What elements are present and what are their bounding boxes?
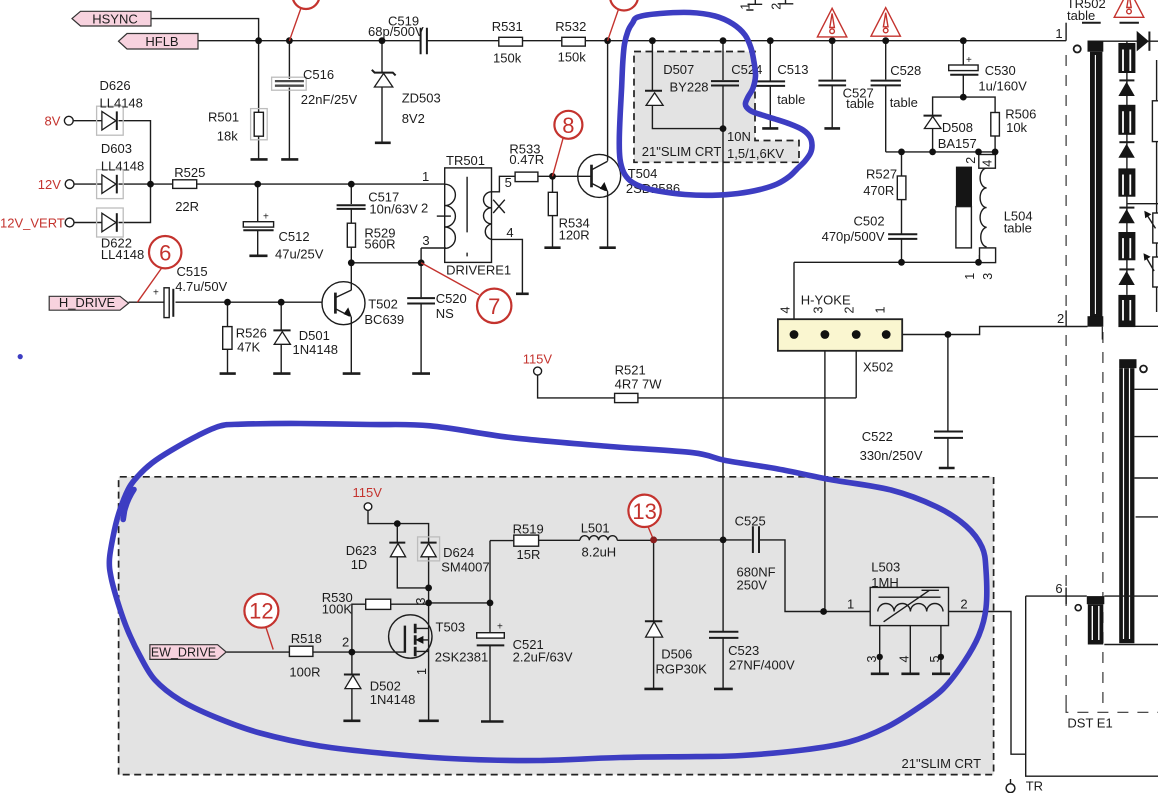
DST E1 block winding 6	[1087, 596, 1105, 604]
svg-text:1: 1	[874, 307, 888, 314]
resistor R501	[251, 109, 268, 140]
terminal 115V top	[534, 367, 542, 375]
wire R519 to L501	[539, 539, 580, 541]
svg-text:1: 1	[1055, 26, 1062, 41]
wire TR501 pin4	[492, 239, 523, 293]
transistor T504	[578, 154, 621, 197]
inductor L504 pin4 box	[979, 155, 996, 169]
svg-text:1: 1	[415, 668, 429, 675]
TR502 primary winding dot	[1074, 45, 1081, 52]
svg-text:D626: D626	[100, 78, 131, 93]
svg-text:R531: R531	[492, 19, 523, 34]
svg-text:560R: 560R	[364, 237, 395, 252]
svg-text:1D: 1D	[351, 557, 368, 572]
capacitor C524	[711, 81, 739, 85]
svg-text:+: +	[263, 212, 269, 223]
wire C513 branch	[769, 41, 771, 128]
DST winding 6 dot	[1075, 605, 1081, 611]
svg-text:D507: D507	[663, 62, 694, 77]
wire yoke pin1 right	[886, 326, 1158, 334]
svg-text:2: 2	[964, 157, 978, 164]
svg-text:D508: D508	[942, 120, 973, 135]
diode D623	[389, 542, 405, 544]
wire drain node to C521 node	[429, 602, 490, 604]
diode D508	[924, 115, 942, 117]
wire T502 emitter	[350, 317, 352, 373]
svg-text:18k: 18k	[217, 129, 238, 144]
wire C521 R519 vertical	[489, 541, 491, 721]
node 8V wire	[73, 121, 150, 184]
top pin symbol 1	[746, 0, 762, 10]
svg-text:H-YOKE: H-YOKE	[801, 293, 851, 308]
capacitor C520	[407, 298, 435, 303]
svg-text:12V: 12V	[38, 177, 61, 192]
wire T504 emitter	[607, 191, 609, 247]
svg-text:C520: C520	[436, 291, 467, 306]
21"SLIM CRT top sub-circuit box (D507/C524)	[634, 52, 799, 163]
warning triangle 3 (cut top)	[1114, 0, 1144, 17]
red line to circle 9	[608, 2, 621, 41]
wire R501 branch	[258, 41, 260, 159]
wire H_DRIVE rail	[129, 301, 322, 303]
wire D508 branch	[933, 97, 996, 152]
svg-text:RGP30K: RGP30K	[656, 662, 708, 677]
resistor R531	[499, 37, 523, 46]
TR502 HV winding dot	[1140, 366, 1147, 373]
resistor R518	[289, 646, 313, 656]
svg-text:4.7u/50V: 4.7u/50V	[175, 279, 227, 294]
ground T504	[599, 246, 615, 249]
svg-text:NS: NS	[436, 306, 454, 321]
svg-text:SM4007: SM4007	[441, 559, 489, 574]
svg-text:C523: C523	[728, 643, 759, 658]
resistor R527	[897, 176, 906, 200]
svg-text:C513: C513	[777, 62, 808, 77]
svg-text:10n/63V: 10n/63V	[369, 201, 418, 216]
ground T502	[343, 372, 361, 375]
svg-text:4: 4	[898, 656, 912, 663]
connector X502 H-YOKE	[778, 319, 902, 351]
svg-text:4: 4	[506, 225, 513, 240]
red circle 13	[648, 527, 654, 540]
diode D624	[418, 537, 440, 561]
svg-text:BY228: BY228	[670, 80, 709, 95]
resistor R506	[991, 113, 1000, 137]
wire T503 source	[428, 628, 430, 719]
wire R530 right	[391, 603, 429, 605]
svg-text:T502: T502	[368, 297, 398, 312]
net tag HSYNC	[72, 11, 151, 26]
right edge resistor chain	[1156, 60, 1158, 312]
bar C523	[714, 688, 733, 691]
bar C527	[824, 127, 840, 130]
svg-text:8V: 8V	[45, 114, 61, 129]
svg-text:10k: 10k	[1006, 120, 1027, 135]
svg-text:115V: 115V	[523, 351, 553, 366]
terminal 8V	[64, 116, 73, 125]
zener ZD503	[372, 70, 396, 76]
svg-text:7: 7	[488, 294, 500, 319]
inductor L504 core bar	[956, 167, 972, 207]
ground C520	[412, 372, 430, 375]
TR502 HV bar head	[1119, 359, 1136, 368]
wire EW_DRIVE rail	[226, 651, 404, 653]
svg-text:R501: R501	[208, 110, 239, 125]
net tag H_DRIVE	[49, 296, 128, 310]
svg-text:C512: C512	[279, 229, 310, 244]
ground C521	[481, 720, 504, 723]
svg-text:21"SLIM CRT: 21"SLIM CRT	[902, 756, 982, 771]
wire HFLB / top rail	[198, 40, 420, 42]
svg-text:150k: 150k	[558, 49, 587, 64]
node pin1 TR502 tick	[1065, 23, 1067, 41]
TR502 tap line	[1127, 203, 1158, 205]
svg-text:4R7 7W: 4R7 7W	[615, 376, 663, 391]
svg-text:table: table	[890, 95, 918, 110]
svg-text:2SK2381: 2SK2381	[435, 649, 489, 664]
resistor R533	[515, 172, 538, 182]
capacitor C528	[871, 81, 901, 86]
resistor R532	[562, 37, 586, 46]
warning triangle 1	[817, 8, 846, 37]
resistor R534	[548, 192, 557, 215]
transistor T502	[322, 282, 365, 325]
TR502 secondary column line	[1126, 41, 1128, 295]
node 12V wire	[74, 183, 445, 185]
svg-text:LL4148: LL4148	[101, 159, 144, 174]
svg-text:250V: 250V	[737, 578, 768, 593]
wire L501 to node13	[617, 539, 751, 541]
svg-text:2: 2	[342, 635, 349, 650]
svg-text:R532: R532	[555, 19, 586, 34]
svg-text:0.47R: 0.47R	[509, 152, 544, 167]
TR502 primary core bar	[1088, 41, 1104, 52]
svg-text:DRIVERE1: DRIVERE1	[446, 263, 511, 278]
svg-text:D501: D501	[299, 328, 330, 343]
right edge resistor 2	[1153, 213, 1158, 243]
svg-text:3: 3	[812, 307, 826, 314]
wire L503 pin4 stub	[909, 626, 911, 673]
wire C522 branch	[947, 335, 949, 468]
svg-text:470p/500V: 470p/500V	[822, 229, 885, 244]
TR502 dashed boundary left	[1066, 55, 1158, 712]
capacitor C502	[888, 234, 917, 239]
warning triangle 2	[871, 8, 900, 37]
svg-text:47K: 47K	[237, 340, 260, 355]
resistor R530	[366, 599, 391, 609]
svg-text:table: table	[777, 92, 805, 107]
svg-text:LL4148: LL4148	[101, 247, 144, 262]
wire T504 collector	[607, 41, 609, 161]
wire R506 bottom	[994, 136, 996, 152]
svg-text:470R: 470R	[863, 183, 894, 198]
ground L503 pin3	[871, 672, 889, 675]
wire ZD503 branch	[381, 41, 383, 142]
wire L503 pin5 stub	[940, 626, 942, 673]
wire TR501 pin3 stub	[421, 247, 446, 249]
ground R534	[544, 246, 560, 249]
wire R526 branch	[227, 302, 229, 373]
svg-text:EW_DRIVE: EW_DRIVE	[151, 645, 216, 659]
wire R527 C502 branch	[901, 152, 903, 262]
wire D623 branch	[397, 524, 428, 588]
right edge resistor 3	[1153, 257, 1158, 287]
svg-text:2: 2	[843, 307, 857, 314]
svg-text:1u/160V: 1u/160V	[978, 78, 1027, 93]
inductor L504 winding	[980, 168, 987, 247]
terminal 115V bottom	[364, 503, 372, 511]
svg-text:HFLB: HFLB	[145, 34, 178, 49]
wire C525 right to L503	[760, 540, 871, 612]
svg-text:3: 3	[414, 598, 428, 605]
svg-text:table: table	[1067, 8, 1095, 23]
svg-text:2: 2	[960, 596, 967, 611]
svg-text:2: 2	[421, 200, 428, 215]
svg-text:L501: L501	[581, 520, 610, 535]
TR502 dashed boundary right	[1102, 332, 1104, 706]
terminal 12V	[65, 180, 74, 189]
TR502 winding block 2	[1118, 105, 1135, 135]
svg-text:150k: 150k	[493, 51, 522, 66]
bar D506	[644, 688, 663, 691]
ground L503 pin4	[901, 672, 919, 675]
wire node7 rail	[351, 248, 421, 373]
svg-text:6: 6	[159, 240, 171, 265]
svg-text:C530: C530	[985, 63, 1016, 78]
terminal 12V_VERT	[65, 218, 74, 227]
inductor L503 winding	[878, 604, 943, 612]
svg-text:1,5/1,6KV: 1,5/1,6KV	[727, 146, 784, 161]
TR502 winding block 4	[1118, 232, 1135, 260]
svg-text:TR501: TR501	[446, 153, 485, 168]
wire yoke pin3 down	[824, 335, 826, 612]
ground T503	[419, 719, 439, 722]
TR502 winding block 1	[1118, 43, 1135, 73]
red circle 11 (cut at top)	[293, 0, 320, 9]
svg-text:330n/250V: 330n/250V	[860, 448, 923, 463]
svg-text:table: table	[1004, 220, 1032, 235]
resistor R526	[223, 327, 232, 350]
svg-text:13: 13	[632, 499, 656, 524]
svg-text:12V_VERT: 12V_VERT	[0, 215, 65, 230]
wire R519 left	[490, 540, 514, 542]
pin4 end bar	[516, 292, 529, 295]
TR502 winding block 3	[1118, 168, 1135, 196]
svg-text:D624: D624	[443, 545, 474, 560]
TR502 HV bar body	[1119, 368, 1134, 643]
wire TR502 pin2 tick	[1065, 310, 1067, 326]
svg-text:R527: R527	[866, 166, 897, 181]
wire yoke pin2 down	[855, 335, 857, 398]
TR502 rectifier diode D-c	[1119, 207, 1134, 209]
resistor R519	[514, 535, 539, 546]
wire T503 drain	[428, 603, 430, 629]
diode D502	[344, 674, 360, 676]
wire TR501 pin2 stub	[437, 215, 451, 217]
svg-text:C522: C522	[862, 429, 893, 444]
svg-text:BC639: BC639	[364, 312, 404, 327]
svg-text:R519: R519	[513, 521, 544, 536]
wire yoke rail	[794, 261, 980, 263]
svg-text:+: +	[153, 288, 159, 299]
inductor L503 box	[870, 587, 948, 625]
svg-text:table: table	[846, 96, 874, 111]
wire C528 branch	[885, 41, 887, 152]
capacitor C519	[421, 28, 427, 55]
svg-text:21"SLIM CRT: 21"SLIM CRT	[642, 144, 722, 159]
svg-text:2.2uF/63V: 2.2uF/63V	[513, 650, 573, 665]
ground C512	[249, 255, 267, 258]
svg-text:C515: C515	[177, 264, 208, 279]
red circle 9 (cut at top)	[610, 0, 638, 11]
wire R530 left	[352, 604, 366, 652]
svg-text:BA157: BA157	[938, 136, 977, 151]
svg-text:5: 5	[928, 656, 942, 663]
wire D506 branch	[653, 540, 655, 688]
capacitor C516	[272, 77, 307, 90]
capacitor C522	[934, 432, 963, 438]
X mark TR501	[493, 200, 505, 213]
wire 115V R521	[538, 375, 857, 398]
svg-text:C516: C516	[303, 67, 334, 82]
svg-text:R525: R525	[174, 165, 205, 180]
svg-text:HSYNC: HSYNC	[92, 11, 138, 26]
ground R526	[220, 372, 236, 375]
capacitor C525	[753, 526, 759, 553]
red node dot 13	[650, 537, 657, 544]
wire C523 branch	[722, 540, 724, 688]
capacitor C521 polarized	[477, 633, 505, 638]
svg-text:1: 1	[422, 169, 429, 184]
red circle 6	[137, 268, 161, 302]
diode D603	[97, 170, 124, 199]
bar C513	[762, 127, 778, 130]
svg-text:3: 3	[422, 233, 429, 248]
blue marker loop around EW circuit	[109, 423, 986, 760]
wire L503 pin3 stub	[879, 626, 881, 673]
svg-text:C502: C502	[854, 214, 885, 229]
pot arrow 1	[1146, 214, 1155, 229]
inductor L501	[580, 536, 617, 541]
blue dot stray	[18, 354, 23, 359]
diode D626	[97, 106, 124, 135]
svg-text:R518: R518	[291, 631, 322, 646]
wire HSYNC to bus	[151, 19, 259, 41]
svg-text:15R: 15R	[517, 547, 541, 562]
svg-text:1: 1	[739, 3, 753, 10]
ground D501	[273, 372, 290, 375]
svg-text:1N4148: 1N4148	[293, 342, 339, 357]
wire C524 vertical long	[722, 41, 724, 540]
DST pin 6 tick	[1065, 588, 1067, 605]
inductor L504 core slug	[956, 207, 972, 248]
svg-text:2: 2	[1057, 311, 1064, 326]
wire C517 R529 branch	[350, 184, 352, 263]
red line to circle 11	[289, 1, 303, 41]
svg-text:22R: 22R	[175, 199, 199, 214]
capacitor C512 polarized	[243, 222, 273, 227]
svg-text:22nF/25V: 22nF/25V	[301, 92, 358, 107]
resistor R529	[347, 223, 355, 247]
wire TR501 pin5 to R533	[492, 176, 516, 192]
wire C530 branch	[962, 41, 964, 97]
svg-text:8: 8	[562, 113, 574, 138]
svg-text:115V: 115V	[353, 485, 383, 500]
blue stray stroke corner	[123, 490, 134, 520]
svg-text:100R: 100R	[289, 665, 320, 680]
wire T502 collector	[350, 263, 352, 290]
TR502 rectifier diode D-d	[1119, 268, 1134, 270]
svg-text:68p/500V: 68p/500V	[368, 24, 424, 39]
svg-text:ZD503: ZD503	[402, 91, 441, 106]
ground R501	[251, 158, 268, 161]
capacitor C515 polarized	[164, 288, 169, 318]
capacitor C523	[709, 632, 738, 638]
wire D624 to drain node	[428, 557, 430, 603]
21"SLIM CRT bottom sub-circuit box	[119, 477, 994, 775]
capacitor C513	[756, 81, 785, 86]
svg-text:3: 3	[865, 656, 879, 663]
red circle 12	[266, 628, 273, 650]
ground L503 pin5	[932, 672, 950, 675]
diode D507	[645, 90, 662, 92]
TR502 EHT diode top	[1137, 31, 1149, 52]
right edge resistor 1	[1152, 101, 1158, 142]
svg-text:X502: X502	[863, 360, 893, 375]
red circle 8	[553, 139, 564, 177]
svg-text:10N: 10N	[727, 129, 751, 144]
net tag HFLB	[119, 34, 199, 50]
TR502 table underline marks	[1082, 22, 1139, 24]
svg-text:C525: C525	[735, 514, 766, 529]
inductor L504 bottom box	[980, 248, 996, 263]
diode D622	[97, 208, 124, 237]
wire C512 branch	[257, 184, 259, 255]
svg-text:120R: 120R	[559, 227, 590, 242]
resistor R525	[173, 180, 197, 189]
svg-text:D506: D506	[661, 647, 692, 662]
wire C527 branch	[831, 41, 833, 128]
DST bottom connection line	[1104, 644, 1158, 646]
svg-text:2: 2	[770, 3, 784, 10]
earth symbol TR	[1006, 784, 1015, 793]
node 12V_VERT wire	[74, 184, 151, 222]
svg-text:L503: L503	[871, 560, 900, 575]
wire R533 to T504 base	[538, 175, 592, 177]
red circle 7	[421, 263, 479, 295]
wire D508 bottom rail	[886, 151, 995, 153]
svg-text:12: 12	[249, 599, 273, 624]
svg-text:3: 3	[981, 273, 995, 280]
TR502 rectifier diode D-a	[1119, 79, 1134, 81]
wire R534 branch	[552, 176, 554, 247]
svg-text:8.2uH: 8.2uH	[582, 544, 617, 559]
svg-text:1MH: 1MH	[871, 575, 898, 590]
inductor L503 adjust arrow	[884, 590, 939, 622]
wire C516 branch	[288, 41, 290, 159]
svg-text:+: +	[966, 55, 972, 66]
svg-text:H_DRIVE: H_DRIVE	[59, 295, 116, 310]
svg-text:C528: C528	[890, 63, 921, 78]
blue marker loop around D507 box	[619, 12, 812, 195]
diode D501	[273, 329, 290, 331]
wire D507 branch	[652, 41, 723, 129]
wire 115V bottom node	[368, 510, 429, 542]
ground C522	[939, 467, 955, 470]
svg-text:+: +	[497, 622, 503, 633]
svg-text:DST E1: DST E1	[1067, 716, 1112, 731]
diode D506	[645, 620, 662, 622]
